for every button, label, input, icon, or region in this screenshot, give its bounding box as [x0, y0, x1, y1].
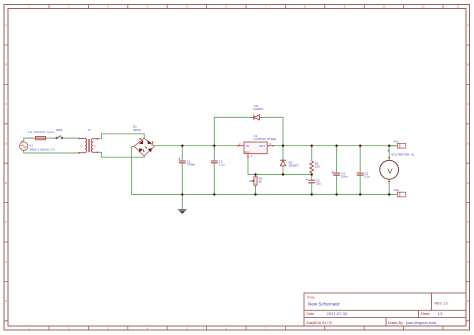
svg-text:OUT: OUT	[259, 144, 266, 148]
svg-text:1N4007: 1N4007	[253, 107, 264, 111]
potentiometer R2	[249, 177, 257, 185]
wire: SW1 to T1 primary top	[63, 137, 79, 139]
svg-text:LM350K STEEL: LM350K STEEL	[254, 137, 278, 141]
svg-text:C: C	[5, 102, 7, 106]
svg-text:220: 220	[315, 164, 320, 168]
wire: R2 leads	[255, 175, 257, 195]
wire: ground stub	[181, 195, 183, 210]
wire: voltmeter bottom	[388, 179, 390, 194]
title block	[304, 293, 466, 326]
svg-text:A: A	[5, 23, 7, 27]
svg-text:G: G	[5, 260, 7, 264]
label Rx	[315, 161, 320, 168]
svg-text:B: B	[5, 63, 7, 67]
label D3	[289, 161, 300, 168]
svg-text:G: G	[467, 260, 469, 264]
svg-text:Sheet:: Sheet:	[421, 312, 431, 316]
svg-text:SIN(0 1 50) AC 1 0: SIN(0 1 50) AC 1 0	[29, 147, 55, 151]
svg-text:1.0: 1.0	[444, 302, 449, 306]
svg-text:T1: T1	[87, 128, 91, 132]
label C1	[187, 160, 196, 167]
resistor Rx	[310, 161, 314, 173]
bridge rectifier D1	[134, 138, 154, 156]
wire: C2 branch	[213, 146, 215, 195]
wire: T1 secondary bottom to bridge bottom	[98, 152, 145, 157]
switch SW1	[56, 136, 63, 139]
svg-text:SW1: SW1	[56, 128, 63, 132]
junction dots	[181, 145, 390, 196]
T1 pin dots	[78, 138, 98, 154]
label C5	[364, 172, 370, 179]
svg-text:0.1u: 0.1u	[219, 163, 225, 167]
wire: fuse to SW1	[46, 137, 56, 139]
label R2	[259, 177, 263, 184]
capacitor C5	[357, 173, 364, 175]
wire: V1 top to fuse	[24, 138, 36, 142]
wire: voltmeter top	[388, 146, 390, 161]
capacitor C3	[306, 179, 315, 183]
label D1	[133, 124, 141, 132]
svg-text:TITLE:: TITLE:	[307, 295, 316, 299]
svg-text:E: E	[5, 181, 7, 185]
label C3	[316, 179, 321, 186]
svg-text:Neg: Neg	[394, 188, 400, 192]
svg-text:H: H	[467, 299, 469, 303]
net flag Neg	[394, 188, 406, 197]
capacitor C2	[211, 161, 218, 163]
svg-text:EasyEDA V4.7.8: EasyEDA V4.7.8	[307, 321, 332, 325]
svg-text:ADJ: ADJ	[245, 150, 251, 154]
fuse F1	[36, 136, 46, 139]
T1 winding values	[80, 146, 97, 148]
wire: Rx bottom to C3	[311, 173, 313, 195]
svg-text:D: D	[5, 142, 7, 146]
net flag Pos	[389, 139, 406, 148]
svg-text:2017-07-30: 2017-07-30	[327, 311, 348, 316]
ground	[178, 210, 187, 214]
svg-text:VOLTMETER_4L: VOLTMETER_4L	[391, 152, 414, 156]
svg-text:D: D	[467, 142, 469, 146]
wire: D2 bypass branch	[214, 117, 283, 145]
label V1 value	[29, 144, 55, 152]
wire: U1 ADJ down and ADJ rail	[248, 157, 312, 174]
svg-text:juan.delgado.luna: juan.delgado.luna	[405, 321, 437, 325]
wire: bridge negative to bottom rail	[132, 146, 398, 194]
svg-text:C: C	[467, 102, 469, 106]
svg-text:Pos: Pos	[394, 139, 400, 143]
regulator U1	[238, 142, 275, 158]
svg-text:4700u: 4700u	[187, 163, 196, 167]
svg-text:Date:: Date:	[307, 312, 315, 316]
svg-text:2W10: 2W10	[133, 128, 141, 132]
diode D2	[251, 115, 263, 120]
wire: V1 bottom to T1 primary bottom	[24, 150, 79, 153]
svg-text:H: H	[5, 299, 7, 303]
transformer T1	[79, 139, 97, 153]
svg-text:1A 120VAC fuse: 1A 120VAC fuse	[28, 130, 54, 134]
label U1	[254, 134, 278, 141]
wire: T1 secondary top to bridge top	[98, 134, 145, 139]
svg-text:New Schematic: New Schematic	[308, 302, 341, 307]
label C4	[341, 172, 348, 179]
svg-text:100u: 100u	[341, 175, 348, 179]
title block text	[307, 295, 449, 325]
svg-text:1N4007: 1N4007	[289, 164, 300, 168]
svg-text:22u: 22u	[316, 182, 321, 186]
svg-text:E: E	[467, 181, 469, 185]
capacitor C4	[331, 171, 340, 175]
capacitor C1	[179, 158, 186, 163]
svg-text:IN: IN	[246, 144, 249, 148]
label C2	[219, 160, 225, 167]
svg-text:1/1: 1/1	[438, 312, 443, 316]
U1 pin names	[246, 144, 265, 148]
wire: D3 branch verticals	[282, 146, 284, 175]
voltmeter M1	[380, 150, 399, 183]
svg-text:5k: 5k	[259, 180, 263, 184]
svg-text:REV:: REV:	[435, 302, 443, 306]
wire: C5 branch	[359, 146, 361, 195]
svg-text:Drawn By:: Drawn By:	[388, 321, 404, 325]
wire: U1 OUT rail to Pos	[273, 145, 397, 147]
svg-text:B: B	[467, 63, 469, 67]
diode D3	[280, 160, 286, 166]
label D2	[253, 104, 264, 111]
wire: bridge positive to U1 IN	[154, 145, 238, 147]
wire: C1 branch	[181, 146, 183, 195]
wire: Rx top lead	[311, 146, 313, 161]
svg-text:A: A	[467, 23, 469, 27]
wire: C4 branch	[336, 146, 338, 195]
U1 pin numbers	[239, 142, 272, 158]
svg-text:0.1u: 0.1u	[364, 175, 370, 179]
AC source V1	[20, 141, 28, 151]
